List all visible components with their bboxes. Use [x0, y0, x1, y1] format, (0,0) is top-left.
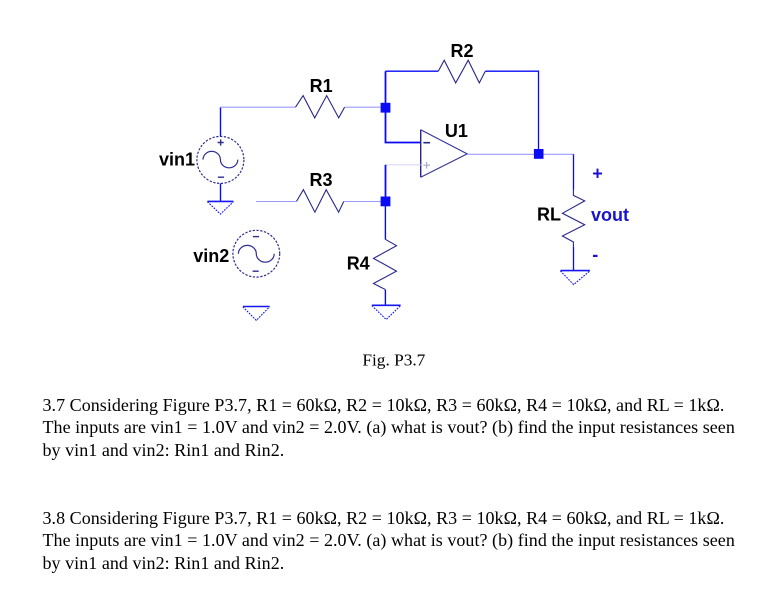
voltage source vin2 [233, 230, 280, 277]
node A junction square [381, 103, 391, 113]
wire non-inverting net vertical [385, 165, 387, 202]
wire from vin1 to R1 (light net) [220, 106, 295, 108]
wire node B down to R4 [384, 206, 386, 239]
wire R3 left stub [256, 201, 297, 203]
wire vin1 bottom stub [220, 184, 222, 202]
wire vin1 top stub [220, 107, 222, 136]
svg-text:Fig. P3.7: Fig. P3.7 [362, 350, 425, 369]
wire op-amp output to node C (light net) [467, 153, 534, 155]
resistor RL zigzag vertical [562, 190, 584, 248]
wire R4 bottom stub [384, 290, 386, 306]
resistor R4 zigzag vertical [374, 239, 397, 289]
wire R1 to node A [345, 106, 381, 108]
svg-text:vin1: vin1 [159, 150, 195, 170]
wire RL bottom [573, 247, 575, 271]
ground G1 below vin1 [207, 201, 233, 214]
wire non-inverting input (light lavender) [386, 164, 421, 166]
ground G2 floating below vin2 [243, 307, 270, 321]
wire R3 to node B [344, 201, 381, 203]
ground G3 below R4 [372, 305, 401, 319]
node C junction square [534, 149, 544, 159]
wire node C to RL corner (light net) [543, 153, 574, 155]
resistor R3 zigzag [297, 190, 344, 213]
wire R2 right down to output node [485, 71, 538, 149]
wire down to RL [573, 154, 575, 189]
node B junction square [381, 197, 391, 207]
svg-text:R1: R1 [310, 76, 333, 96]
svg-text:R4: R4 [347, 254, 370, 274]
svg-text:R3: R3 [310, 170, 333, 190]
resistor R1 zigzag [296, 96, 345, 118]
resistor R2 zigzag [438, 60, 485, 83]
voltage source vin1 [197, 136, 244, 183]
wire inverting net vertical and into op-amp [386, 71, 421, 142]
op-amp U1 [421, 130, 468, 178]
svg-text:R2: R2 [451, 41, 474, 61]
svg-text:RL: RL [537, 205, 561, 225]
wire R2 left [386, 70, 439, 72]
svg-text:U1: U1 [445, 121, 468, 141]
ground G4 below RL [560, 271, 590, 285]
svg-text:-: - [592, 244, 598, 264]
svg-text:vin2: vin2 [193, 246, 229, 266]
svg-text:vout: vout [591, 205, 629, 225]
svg-text:+: + [592, 164, 603, 184]
